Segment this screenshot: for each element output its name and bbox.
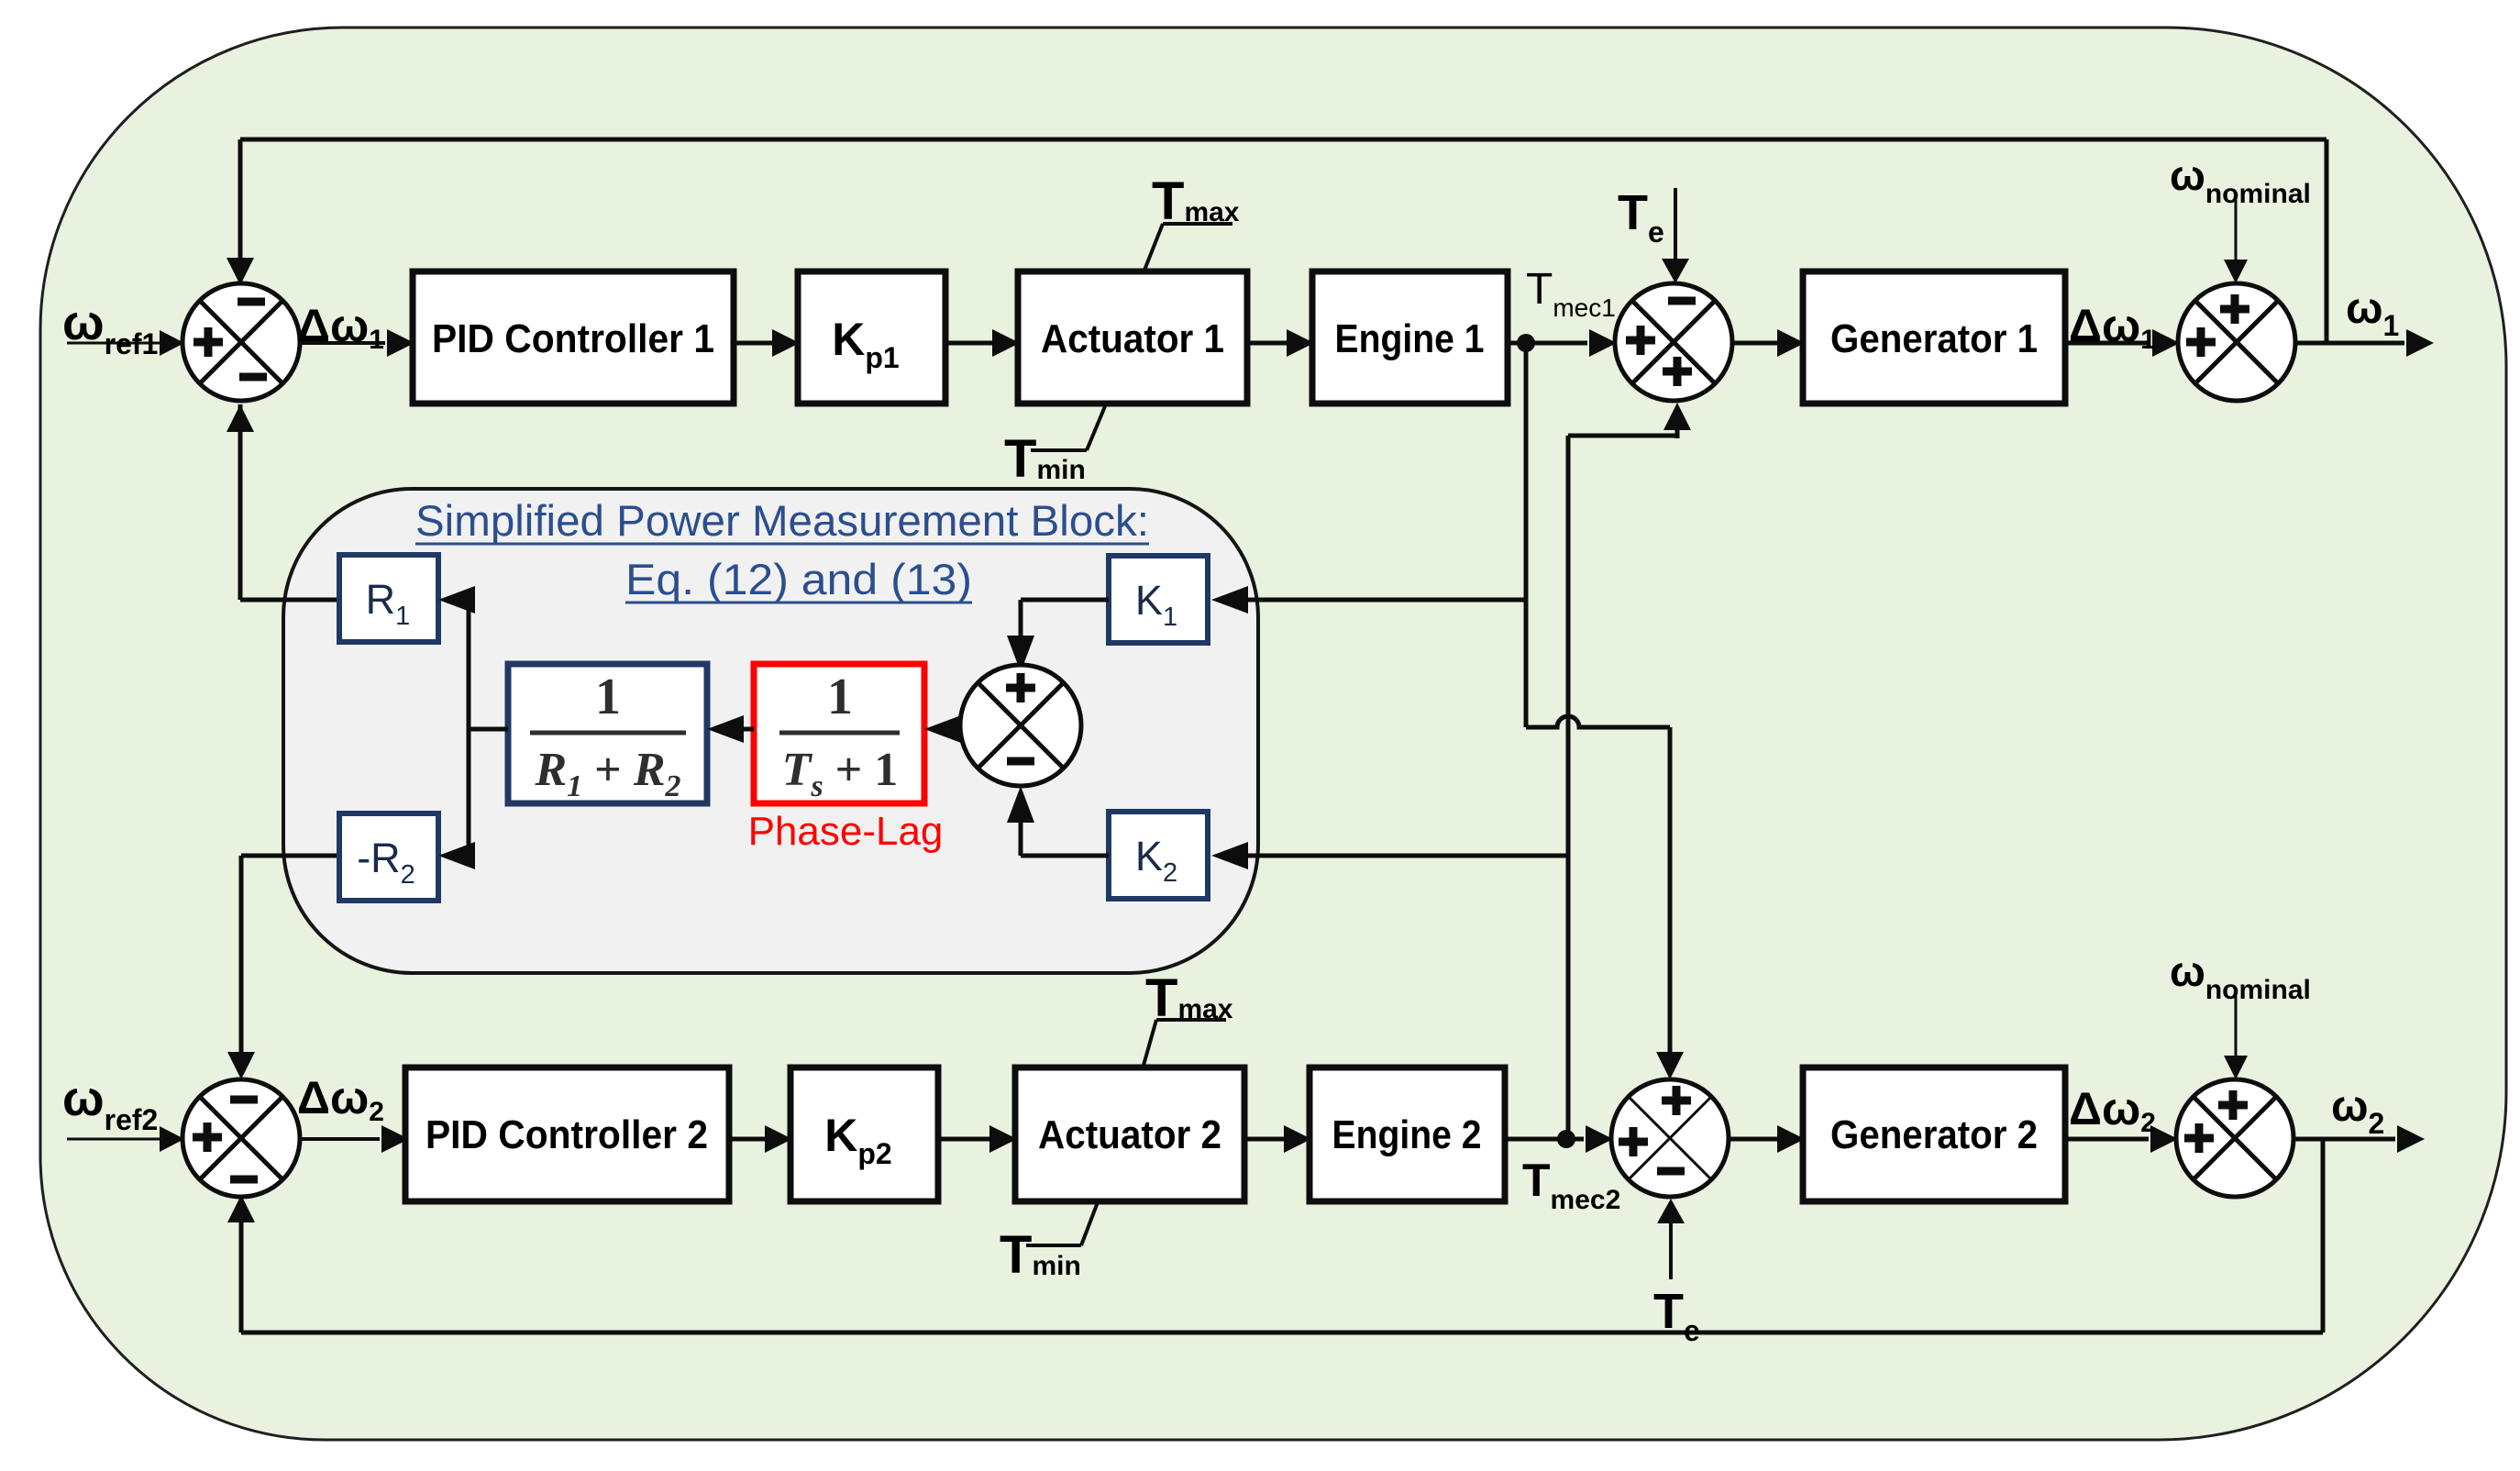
- svg-text:Eq. (12) and (13): Eq. (12) and (13): [625, 555, 972, 603]
- svg-text:Generator 2: Generator 2: [1830, 1112, 2038, 1157]
- svg-text:1: 1: [827, 669, 853, 725]
- svg-text:PID Controller 1: PID Controller 1: [432, 316, 714, 361]
- svg-text:PID Controller 2: PID Controller 2: [426, 1112, 708, 1157]
- svg-text:Generator 1: Generator 1: [1830, 316, 2038, 361]
- svg-text:Phase-Lag: Phase-Lag: [748, 809, 944, 854]
- svg-text:1: 1: [595, 669, 621, 725]
- svg-text:Engine 1: Engine 1: [1335, 316, 1485, 361]
- svg-text:Simplified Power Measurement B: Simplified Power Measurement Block:: [415, 496, 1149, 545]
- svg-text:Ts + 1: Ts + 1: [782, 744, 899, 803]
- svg-text:R1 + R2: R1 + R2: [534, 744, 680, 803]
- svg-text:Engine 2: Engine 2: [1332, 1112, 1482, 1157]
- svg-text:Actuator 1: Actuator 1: [1041, 316, 1224, 361]
- svg-text:Actuator 2: Actuator 2: [1038, 1112, 1221, 1157]
